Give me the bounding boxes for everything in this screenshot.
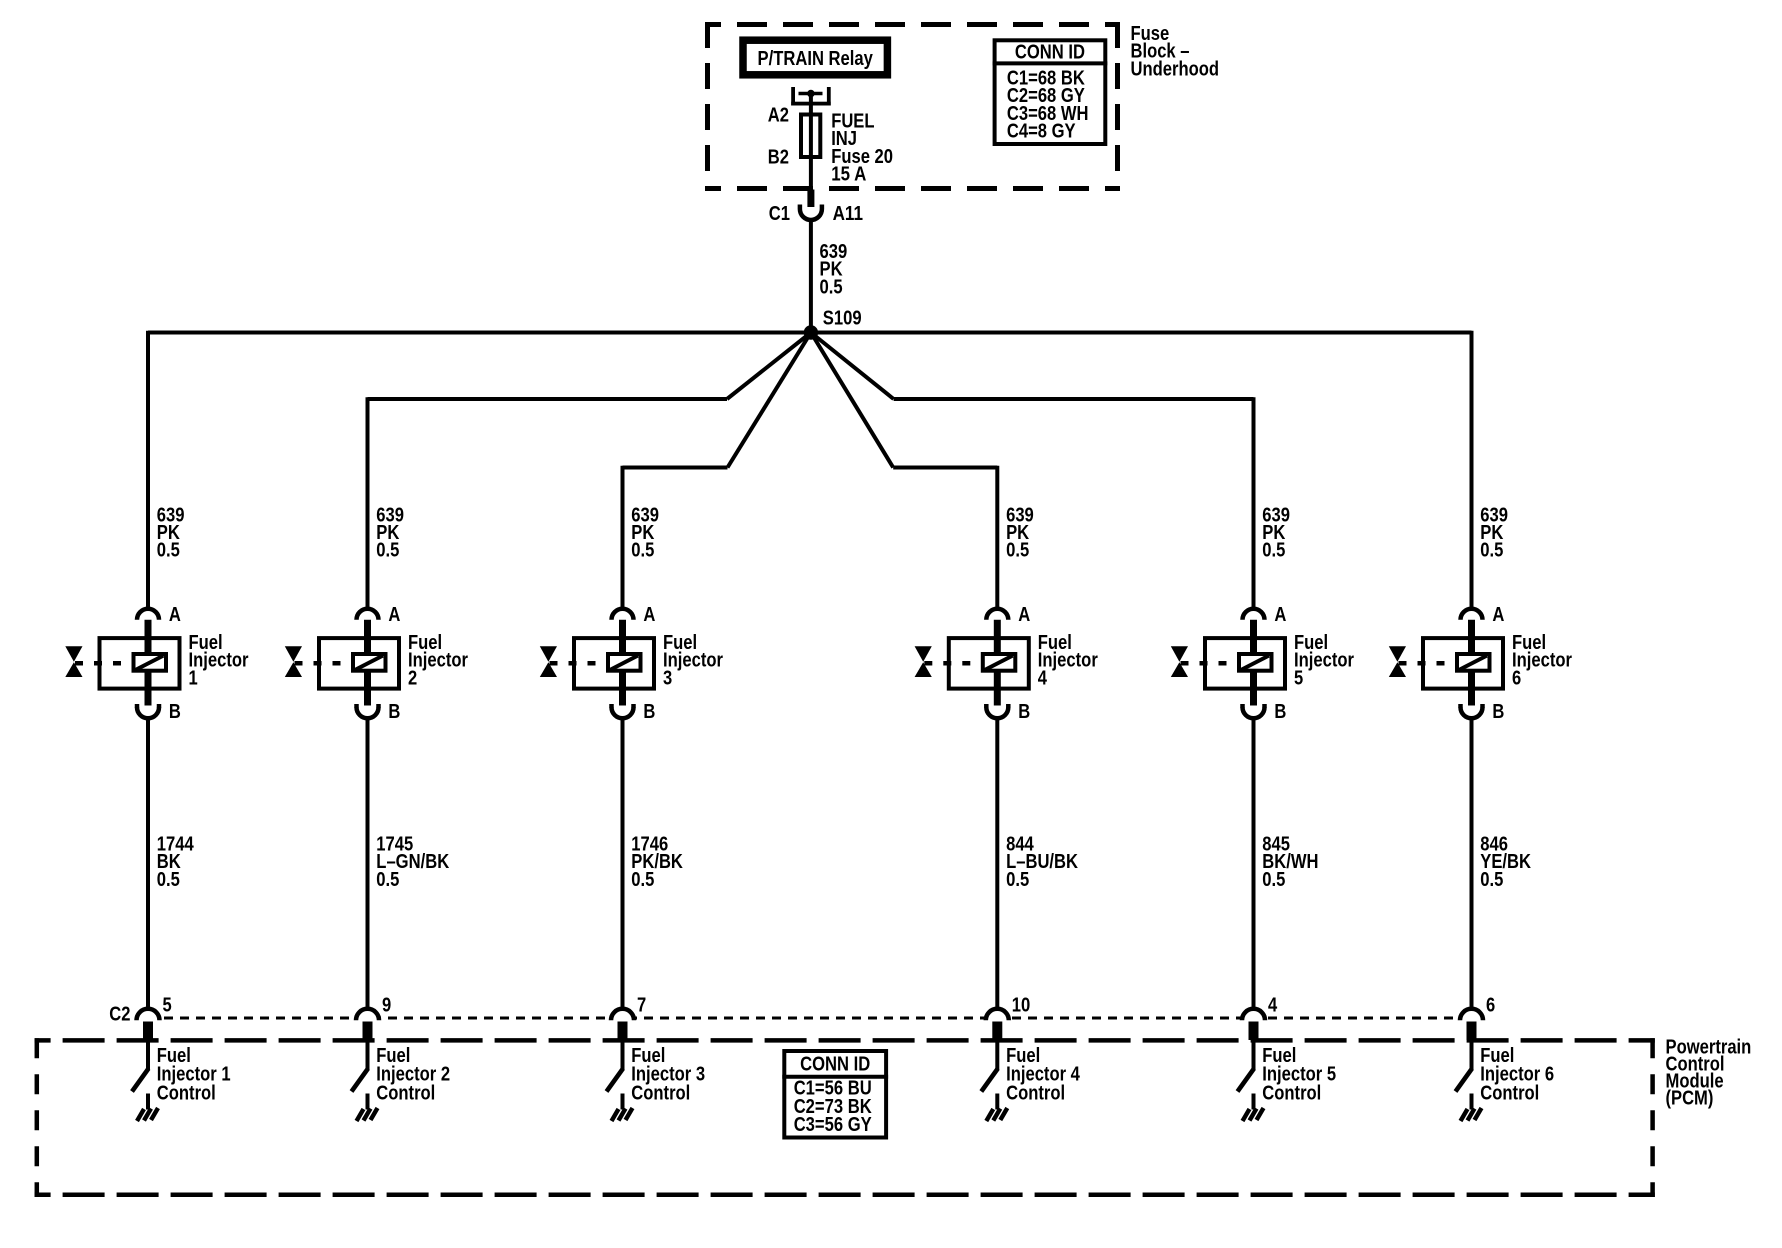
svg-text:A11: A11 (833, 203, 863, 225)
svg-text:Control: Control (631, 1082, 690, 1104)
svg-text:0.5: 0.5 (1262, 869, 1285, 891)
svg-text:5: 5 (163, 995, 172, 1017)
svg-text:B: B (169, 701, 181, 723)
svg-text:Control: Control (1480, 1082, 1539, 1104)
svg-text:0.5: 0.5 (157, 869, 180, 891)
svg-text:A: A (1492, 604, 1504, 626)
svg-text:CONN ID: CONN ID (1015, 42, 1085, 64)
svg-text:B: B (1492, 701, 1504, 723)
svg-text:0.5: 0.5 (631, 869, 654, 891)
svg-text:(PCM): (PCM) (1666, 1088, 1714, 1110)
svg-text:B: B (388, 701, 400, 723)
svg-text:Control: Control (1262, 1082, 1321, 1104)
svg-text:0.5: 0.5 (1480, 540, 1503, 562)
svg-text:Control: Control (1006, 1082, 1065, 1104)
svg-text:1: 1 (189, 667, 198, 689)
svg-text:A: A (169, 604, 181, 626)
svg-text:5: 5 (1294, 667, 1303, 689)
svg-text:10: 10 (1012, 995, 1031, 1017)
svg-text:3: 3 (663, 667, 672, 689)
svg-text:0.5: 0.5 (820, 276, 843, 298)
svg-text:0.5: 0.5 (1480, 869, 1503, 891)
svg-text:4: 4 (1268, 995, 1278, 1017)
svg-text:9: 9 (382, 995, 391, 1017)
svg-text:0.5: 0.5 (1006, 540, 1029, 562)
svg-text:7: 7 (637, 995, 646, 1017)
svg-text:0.5: 0.5 (157, 540, 180, 562)
svg-text:Control: Control (157, 1082, 216, 1104)
svg-text:15 A: 15 A (831, 164, 866, 186)
svg-text:A: A (1274, 604, 1286, 626)
svg-text:6: 6 (1512, 667, 1521, 689)
svg-text:6: 6 (1486, 995, 1495, 1017)
svg-text:Underhood: Underhood (1131, 58, 1220, 80)
svg-text:0.5: 0.5 (376, 869, 399, 891)
svg-text:A2: A2 (768, 105, 789, 127)
svg-text:B2: B2 (768, 147, 789, 169)
svg-text:A: A (1018, 604, 1030, 626)
svg-text:0.5: 0.5 (376, 540, 399, 562)
svg-text:0.5: 0.5 (1006, 869, 1029, 891)
svg-text:2: 2 (408, 667, 417, 689)
svg-text:B: B (1018, 701, 1030, 723)
svg-text:A: A (388, 604, 400, 626)
svg-text:S109: S109 (823, 307, 862, 329)
svg-text:A: A (643, 604, 655, 626)
svg-text:B: B (643, 701, 655, 723)
svg-text:B: B (1274, 701, 1286, 723)
svg-text:P/TRAIN Relay: P/TRAIN Relay (758, 48, 874, 70)
svg-text:C2: C2 (109, 1004, 130, 1026)
svg-text:0.5: 0.5 (631, 540, 654, 562)
svg-text:C1: C1 (769, 203, 790, 225)
svg-text:C3=56 GY: C3=56 GY (794, 1114, 873, 1136)
svg-text:0.5: 0.5 (1262, 540, 1285, 562)
svg-text:C4=8 GY: C4=8 GY (1007, 121, 1076, 143)
svg-text:4: 4 (1038, 667, 1048, 689)
svg-text:CONN ID: CONN ID (800, 1053, 870, 1075)
svg-text:Control: Control (376, 1082, 435, 1104)
